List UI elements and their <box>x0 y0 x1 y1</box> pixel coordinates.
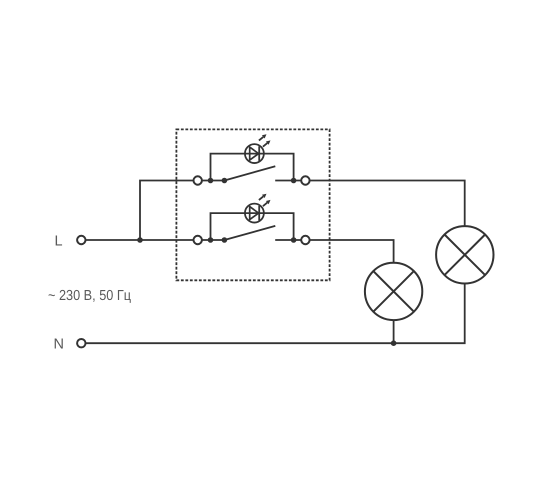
junction switch 2 LED left <box>208 237 214 243</box>
junction L branch <box>137 237 143 243</box>
terminal N <box>77 339 85 347</box>
junction switch 2 blade pivot <box>222 237 228 243</box>
switch S1 blade <box>224 166 275 180</box>
wire L branch up to switch 1 input <box>140 181 224 241</box>
lamp HL1 <box>365 263 422 320</box>
junction N lamp HL1 <box>391 340 397 346</box>
terminal L <box>77 236 85 244</box>
wire L line to switch 2 input <box>86 239 225 241</box>
switch S2 blade <box>224 226 275 240</box>
junction switch 1 blade pivot <box>222 178 228 184</box>
wire switch 1 output to lamp HL2 <box>275 181 465 227</box>
junction switch 1 LED left <box>208 178 214 184</box>
wire LED branch of switch 2 <box>211 213 294 240</box>
junction switch 1 LED right <box>291 178 297 184</box>
terminal switch 2 input <box>194 236 202 244</box>
wire N line to lamp HL2 bottom <box>86 283 465 343</box>
terminal switch 1 input <box>194 176 202 184</box>
wire switch 2 output to lamp HL1 <box>275 240 393 263</box>
terminal switch 1 output <box>301 176 309 184</box>
lamp HL2 <box>436 226 493 283</box>
wire LED branch of switch 1 <box>211 154 294 181</box>
wire lamp HL1 bottom to N <box>393 320 395 343</box>
switch unit enclosure (dashed) <box>176 129 329 280</box>
svg-text:L: L <box>55 233 63 249</box>
svg-text:N: N <box>54 336 64 352</box>
LED VD2 <box>245 194 271 223</box>
LED VD1 <box>245 134 271 163</box>
junction switch 2 LED right <box>291 237 297 243</box>
terminal switch 2 output <box>301 236 309 244</box>
svg-text:~ 230 В, 50 Гц: ~ 230 В, 50 Гц <box>48 288 131 304</box>
